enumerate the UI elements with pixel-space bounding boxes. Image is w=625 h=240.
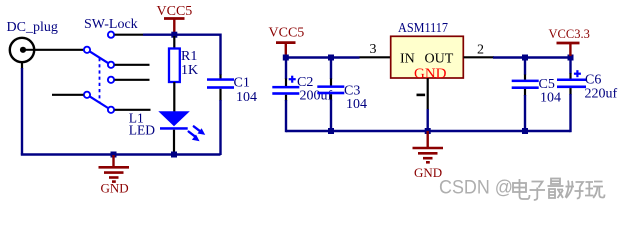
wire left vertical — [21, 68, 23, 155]
junction GND right — [425, 128, 431, 134]
junction LED bottom — [171, 152, 177, 158]
switch S1 linkage dashed — [99, 58, 101, 103]
switch S1 lever pole2 — [90, 96, 109, 108]
junction C5 top — [522, 55, 528, 61]
LED L1 — [158, 111, 190, 152]
resistor R1 — [169, 36, 180, 112]
switch S1 throw pin 3 — [108, 77, 150, 83]
svg-text:GND: GND — [414, 66, 447, 82]
svg-text:OUT: OUT — [425, 52, 454, 67]
svg-text:SW-Lock: SW-Lock — [84, 17, 138, 32]
regulator U1 ASM1117 body — [391, 36, 464, 78]
switch S1 pole1 common pin — [84, 47, 90, 53]
wire plug bottom stub — [21, 62, 23, 69]
capacitor C3 — [317, 58, 344, 133]
regulator U1 pin1 — [427, 78, 429, 110]
svg-text:VCC3.3: VCC3.3 — [549, 27, 590, 41]
svg-text:104: 104 — [346, 97, 367, 112]
svg-text:200uf: 200uf — [300, 89, 333, 104]
wire top left — [143, 34, 221, 36]
ground GND left — [99, 155, 130, 196]
svg-text:220uf: 220uf — [585, 87, 618, 102]
switch S1 throw pin bottom — [108, 107, 151, 113]
connector J DC plug symbol — [10, 38, 35, 62]
svg-text:ASM1117: ASM1117 — [398, 21, 448, 36]
wire C1 branch vertical top — [219, 34, 221, 76]
regulator U1 pin2 — [464, 56, 495, 58]
svg-text:C6: C6 — [585, 73, 601, 88]
wire bottom right — [286, 130, 571, 132]
svg-text:GND: GND — [101, 181, 129, 196]
junction C3 bottom — [328, 128, 334, 134]
wire top right run1 — [286, 56, 360, 58]
power VCC3.3 — [549, 27, 590, 56]
svg-text:VCC5: VCC5 — [157, 4, 193, 19]
svg-text:2: 2 — [477, 43, 484, 58]
wire plug to switch common (pin run) — [34, 49, 85, 51]
wire top right run2 — [493, 56, 571, 58]
svg-text:C1: C1 — [234, 76, 250, 91]
junction VCC5/C2 — [283, 55, 289, 61]
capacitor C6 electrolytic — [557, 58, 586, 133]
svg-text:DC_plug: DC_plug — [7, 20, 58, 35]
wire bottom left — [21, 153, 221, 155]
pin number 1 rotated — [417, 94, 426, 97]
switch S1 pole2 common pin — [52, 92, 90, 98]
switch S1 throw pin top — [108, 32, 143, 38]
power VCC5 right — [269, 26, 305, 58]
svg-text:GND: GND — [414, 165, 442, 180]
svg-text:LED: LED — [129, 122, 155, 137]
power VCC5 left — [157, 4, 193, 34]
junction C3 top — [328, 55, 334, 61]
regulator U1 pin3 — [360, 56, 392, 58]
svg-text:1K: 1K — [181, 63, 198, 78]
plus sign C6 — [574, 70, 581, 77]
switch S1 throw pin 2 — [108, 62, 150, 68]
junction GND left — [111, 152, 117, 158]
capacitor C1 — [207, 75, 234, 156]
switch S1 lever pole1 — [90, 51, 109, 63]
svg-text:104: 104 — [236, 90, 257, 105]
capacitor C5 — [512, 58, 539, 133]
svg-text:IN: IN — [400, 52, 415, 67]
junction top of R1 — [171, 32, 177, 38]
svg-text:3: 3 — [370, 42, 377, 57]
wire GND pin to bottom — [427, 109, 429, 131]
junction C6 top — [568, 55, 574, 61]
svg-text:VCC5: VCC5 — [269, 26, 305, 41]
plus sign C2 — [289, 76, 296, 83]
svg-text:R1: R1 — [181, 49, 197, 64]
LED arrows — [189, 126, 206, 141]
svg-text:104: 104 — [540, 91, 561, 106]
capacitor C2 electrolytic — [272, 58, 299, 133]
junction C5 bottom — [522, 128, 528, 134]
ground GND right — [413, 131, 444, 180]
